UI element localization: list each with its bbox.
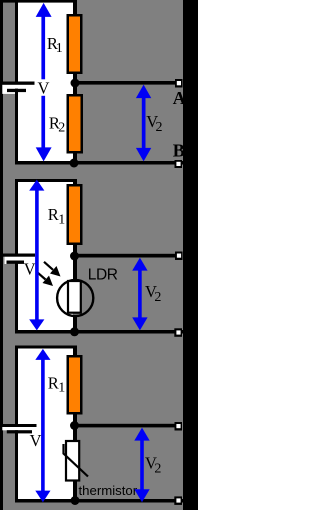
arrow V2 (circuit 3, blue double arrow) xyxy=(134,428,149,503)
svg-text:LDR: LDR xyxy=(88,267,118,284)
resistor R1 (circuit 1) xyxy=(67,14,83,74)
junction node (circuit 3, above thermistor) xyxy=(70,421,79,430)
battery V (circuit 1) xyxy=(0,82,35,94)
wire: top border down to R1 (circuit 3) xyxy=(73,347,77,356)
svg-text:2: 2 xyxy=(154,461,161,476)
resistor R2 (circuit 1) xyxy=(67,94,84,154)
svg-text:A: A xyxy=(173,88,186,108)
terminal B xyxy=(175,160,183,168)
circuit 3 white interior xyxy=(18,349,73,500)
label V (circuit 1) xyxy=(36,78,50,97)
junction node (circuit 2, above LDR) xyxy=(70,252,79,261)
terminal (circuit 3 upper) xyxy=(175,422,183,431)
label V2 (circuit 3) xyxy=(145,453,161,476)
LDR (circle with resistor inside) xyxy=(57,280,93,316)
wire: top border circuit 2 xyxy=(15,179,77,182)
circuit 1 white interior xyxy=(18,2,73,161)
svg-text:B: B xyxy=(173,140,185,160)
wire: bottom border circuit 3 to terminal xyxy=(15,499,183,503)
arrow V (circuit 3, blue double arrow) xyxy=(35,349,50,502)
junction node (circuit 2, bottom) xyxy=(70,327,79,336)
wire: top border down to R1 (circuit 2) xyxy=(73,180,77,186)
light arrow 1 (into LDR) xyxy=(44,262,61,277)
svg-text:2: 2 xyxy=(156,120,163,135)
wire: left border circuit 3 xyxy=(15,346,18,503)
right edge black bar xyxy=(183,0,198,510)
junction node (circuit 1, bottom) xyxy=(70,159,79,168)
svg-text:2: 2 xyxy=(58,121,65,136)
wire: R1 to junction to R2 xyxy=(73,74,77,94)
wire: left border circuit 1 xyxy=(15,0,18,165)
terminal (circuit 2 lower) xyxy=(174,328,182,337)
arrow V2 (circuit 1, blue double arrow) xyxy=(136,85,151,162)
wire: top border circuit 1 xyxy=(0,0,77,3)
svg-text:2: 2 xyxy=(154,290,161,305)
arrow V (circuit 2, blue double arrow) xyxy=(29,180,44,331)
light arrow 2 (into LDR) xyxy=(37,272,53,286)
svg-text:1: 1 xyxy=(56,41,63,56)
svg-text:V: V xyxy=(38,78,50,97)
wire: left border circuit 2 xyxy=(15,179,18,334)
svg-text:V: V xyxy=(24,260,36,279)
svg-text:1: 1 xyxy=(58,213,65,228)
svg-text:V: V xyxy=(30,431,42,450)
label R1 (circuit 1) xyxy=(47,34,63,56)
junction node (circuit 3, bottom) xyxy=(71,496,80,505)
svg-text:thermistor: thermistor xyxy=(79,483,138,498)
wire: junction to terminal A xyxy=(77,81,175,85)
wire: R1 to junction (circuit 2) xyxy=(73,245,77,262)
arrow V2 (circuit 2, blue double arrow) xyxy=(132,258,147,331)
label V2 (circuit 2) xyxy=(145,282,161,305)
arrow V (circuit 1, blue double arrow) xyxy=(36,3,52,162)
terminal A xyxy=(175,79,183,88)
svg-text:1: 1 xyxy=(58,381,65,396)
resistor R1 (circuit 3) xyxy=(67,355,83,415)
wire: LDR to bottom border (circuit 2) xyxy=(73,316,77,333)
label R2 (circuit 1) xyxy=(49,113,65,135)
label R1 (circuit 2) xyxy=(48,205,65,228)
wire: thermistor to bottom border (circuit 3) xyxy=(73,481,77,501)
battery V (circuit 3) xyxy=(0,424,37,433)
junction node (circuit 1, between R1 and R2) xyxy=(71,79,80,88)
wire: junction down to thermistor (circuit 3) xyxy=(73,426,77,442)
svg-text:R: R xyxy=(48,205,59,224)
wire: junction down to LDR (circuit 2) xyxy=(73,262,77,280)
wire: top border circuit 3 xyxy=(15,346,77,349)
thermistor diagonal line xyxy=(64,444,89,477)
battery V (circuit 2) xyxy=(0,254,35,265)
label R1 (circuit 3) xyxy=(48,373,66,395)
left edge wire bar xyxy=(0,0,3,510)
wire: bottom border circuit 1 to terminal B xyxy=(15,161,183,165)
label V2 (circuit 1) xyxy=(146,112,162,135)
wire: R1 to junction (circuit 3) xyxy=(73,415,77,427)
wire: junction to right terminal (circuit 2) xyxy=(77,254,175,258)
wire: bottom border circuit 2 to terminal xyxy=(15,330,183,334)
wire: junction to right terminal (circuit 3) xyxy=(77,424,175,428)
thermistor (rect body) xyxy=(66,441,79,481)
terminal (circuit 3 lower) xyxy=(174,496,182,505)
wire: from top border down to R1 xyxy=(73,2,77,14)
wire: R2 to bottom border xyxy=(73,153,77,162)
svg-text:R: R xyxy=(48,373,59,392)
circuit 2 white interior xyxy=(18,182,73,330)
terminal (circuit 2 upper) xyxy=(175,252,183,261)
resistor R1 (circuit 2) xyxy=(67,184,83,245)
